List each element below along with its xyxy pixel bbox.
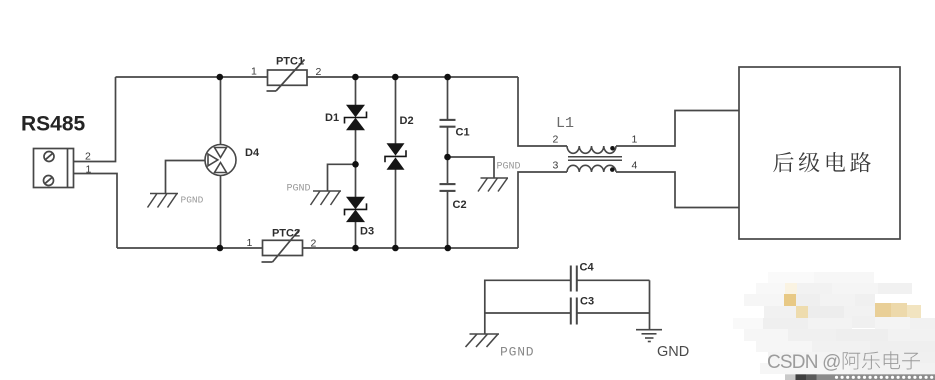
- wire stitch top rail: [485, 280, 650, 334]
- wire D3 top: [355, 164, 357, 197]
- svg-text:C3: C3: [580, 296, 594, 308]
- wire D1 to mid node: [355, 130, 357, 165]
- svg-text:PGND: PGND: [500, 345, 534, 360]
- watermark mosaic patch: [733, 272, 935, 374]
- svg-text:4: 4: [632, 160, 638, 172]
- wire choke pin1 to box: [616, 111, 739, 147]
- capacitor C1: [440, 120, 456, 127]
- svg-text:D3: D3: [360, 226, 374, 238]
- svg-text:1: 1: [632, 134, 638, 146]
- svg-text:PGND: PGND: [287, 184, 311, 195]
- resistor PTC2: [262, 230, 303, 263]
- inductor L1 winding bottom: [567, 165, 616, 172]
- svg-text:C4: C4: [580, 262, 595, 274]
- L1 polarity dot bottom: [610, 167, 615, 172]
- wire D4 top: [220, 77, 222, 145]
- wire choke pin4 to box: [616, 172, 739, 208]
- TVS diode D1: [345, 105, 367, 130]
- wire D4 bottom: [220, 176, 222, 249]
- svg-text:2: 2: [311, 238, 317, 250]
- svg-text:C2: C2: [453, 199, 467, 211]
- ground GND earth: [636, 330, 662, 342]
- inductor L1 winding top: [567, 146, 616, 153]
- svg-text:D4: D4: [245, 147, 260, 159]
- wire C node to PGND: [448, 157, 495, 178]
- TVS diode D3: [345, 197, 367, 222]
- svg-text:D2: D2: [400, 115, 414, 127]
- svg-text:PGND: PGND: [181, 195, 204, 206]
- svg-text:PTC1: PTC1: [276, 56, 304, 68]
- resistor PTC1: [267, 60, 308, 92]
- wire mid node to PGND: [328, 164, 356, 191]
- capacitor C2: [440, 184, 456, 191]
- wire top bus: [116, 76, 519, 78]
- wire stitch bottom rail: [485, 312, 571, 314]
- watermark strip: [785, 374, 935, 380]
- svg-text:RS485: RS485: [21, 113, 86, 136]
- svg-text:D1: D1: [325, 112, 339, 124]
- svg-text:3: 3: [553, 160, 559, 172]
- wire C2 bottom: [447, 192, 449, 249]
- wire left vertical pin1: [74, 174, 118, 249]
- svg-text:2: 2: [553, 134, 559, 146]
- wire D3 bottom: [355, 222, 357, 248]
- wire C1 to mid node: [447, 128, 449, 184]
- svg-text:1: 1: [247, 237, 253, 249]
- svg-text:CSDN @: CSDN @: [767, 352, 841, 373]
- svg-text:PTC2: PTC2: [272, 228, 300, 240]
- TVS diode D2: [385, 143, 406, 170]
- ground PGND (D4): [148, 194, 179, 208]
- svg-text:C1: C1: [456, 127, 470, 139]
- wire C1 top: [447, 77, 449, 119]
- wire right top corner to choke pin2: [518, 77, 567, 146]
- svg-text:1: 1: [251, 66, 257, 78]
- block 后级电路 (following stage): [739, 67, 900, 239]
- text 后级电路: [773, 152, 871, 172]
- wire right bottom corner to choke pin3: [518, 172, 567, 248]
- svg-text:2: 2: [85, 151, 91, 163]
- svg-text:2: 2: [316, 66, 322, 78]
- gas discharge tube D4: [205, 145, 236, 176]
- ground PGND (stitch): [466, 334, 500, 347]
- ground PGND (C1/C2 node): [478, 178, 508, 192]
- svg-text:PGND: PGND: [497, 162, 521, 173]
- ground PGND (D1/D3 node): [311, 191, 342, 205]
- wire D1 top: [355, 77, 357, 106]
- svg-text:L1: L1: [556, 115, 574, 132]
- svg-text:1: 1: [86, 164, 92, 176]
- L1 core: [568, 157, 622, 160]
- capacitor C3: [571, 298, 577, 325]
- wire D2 top: [395, 77, 397, 144]
- wire left vertical pin2: [74, 77, 116, 162]
- wire D4 left to PGND: [166, 161, 206, 194]
- wire bottom bus: [117, 247, 518, 249]
- L1 polarity dot top: [610, 146, 615, 151]
- wire D2 bottom: [395, 170, 397, 249]
- connector J1 RS485: [34, 149, 74, 188]
- capacitor C4: [571, 266, 577, 292]
- svg-text:GND: GND: [657, 344, 689, 360]
- node dots: [217, 74, 452, 252]
